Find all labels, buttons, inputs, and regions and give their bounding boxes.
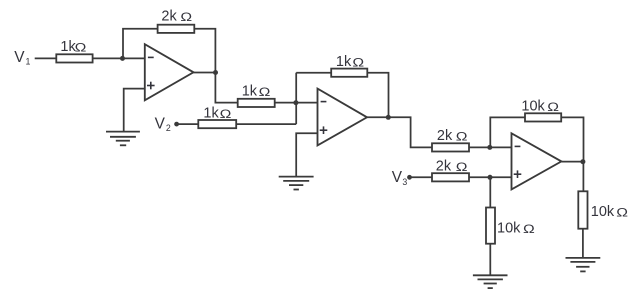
svg-text:Ω: Ω <box>456 129 468 143</box>
svg-text:2: 2 <box>166 123 171 133</box>
wire riser to R5 <box>296 72 331 74</box>
wire node F to U3 <box>490 176 512 178</box>
wire R5 to U2 output node <box>367 73 388 118</box>
node D (U2 output) <box>386 115 391 120</box>
svg-text:Ω: Ω <box>616 205 628 219</box>
resistor R6 2kΩ <box>432 128 469 152</box>
ground (R10 bottom) <box>566 258 601 272</box>
wire R8 to U3 output node <box>561 117 583 161</box>
source V1 <box>14 49 30 67</box>
svg-text:Ω: Ω <box>259 85 271 99</box>
resistor R5 1kΩ (U2 feedback) <box>331 54 367 77</box>
resistor R10 10kΩ (output load to ground) <box>578 191 628 228</box>
op-amp U3 <box>512 133 562 189</box>
svg-text:2k: 2k <box>161 8 177 24</box>
svg-text:Ω: Ω <box>352 55 364 69</box>
node A (U1 inverting input junction) <box>120 56 125 61</box>
wire R10 to ground <box>582 229 584 258</box>
resistor R9 10kΩ (+ input to ground) <box>486 208 535 244</box>
wire U2 inverting input <box>296 102 318 104</box>
op-amp U1 <box>145 44 194 100</box>
wire U2 noninverting input to ground <box>296 133 317 176</box>
wire R9 to ground <box>489 244 491 276</box>
node V2 terminal <box>174 122 179 127</box>
wire R1 to node A <box>93 57 145 59</box>
wire V1 to R1 <box>35 57 57 59</box>
svg-text:V: V <box>14 49 25 66</box>
svg-text:V: V <box>392 169 403 186</box>
wire node F down to R9 <box>489 177 491 207</box>
wire R2 to U1 output node <box>194 29 215 73</box>
wire V2 to R4 <box>177 123 199 125</box>
wire R7 to node F <box>469 176 490 178</box>
svg-text:1: 1 <box>26 57 31 67</box>
node G (U3 output) <box>580 159 585 164</box>
wire U3 output <box>561 161 583 163</box>
svg-text:10k: 10k <box>591 204 615 220</box>
svg-text:Ω: Ω <box>220 107 232 121</box>
svg-text:1k: 1k <box>203 105 219 121</box>
node V3 terminal <box>407 175 412 180</box>
svg-text:10k: 10k <box>521 98 545 114</box>
ground (U2 + input) <box>279 177 314 190</box>
wire V3 to R7 <box>410 176 433 178</box>
wire node A up to R2 <box>123 29 158 59</box>
wire node E up to R8 <box>490 117 525 147</box>
svg-text:2k: 2k <box>437 128 453 144</box>
wire R6 to node E <box>469 146 490 148</box>
svg-text:V: V <box>155 115 166 132</box>
resistor R7 2kΩ <box>432 158 469 181</box>
svg-text:1k: 1k <box>242 84 258 100</box>
svg-text:3: 3 <box>402 177 407 187</box>
wire U1 output <box>194 72 216 74</box>
svg-text:1k: 1k <box>336 54 352 70</box>
source V3 <box>392 169 408 187</box>
svg-text:Ω: Ω <box>75 40 87 54</box>
node C (U2 inverting input junction) <box>293 100 298 105</box>
wire node B down to R3 <box>215 73 237 103</box>
resistor R1 1kΩ <box>56 39 92 62</box>
resistor R3 1kΩ <box>238 84 275 107</box>
op-amp U2 <box>318 89 368 146</box>
ground (R9 bottom) <box>473 275 508 288</box>
resistor R2 2kΩ <box>158 8 195 33</box>
svg-text:10k: 10k <box>497 221 521 237</box>
wire R4 to node C riser <box>236 123 296 125</box>
svg-text:Ω: Ω <box>547 100 559 114</box>
resistor R4 1kΩ <box>198 105 236 128</box>
node F (U3 noninverting input junction) <box>488 175 493 180</box>
node E (U3 inverting input junction) <box>487 145 492 150</box>
wire node D down to R6 <box>388 117 432 147</box>
resistor R8 10kΩ (U3 feedback) <box>521 98 561 121</box>
svg-text:Ω: Ω <box>523 222 535 236</box>
svg-text:Ω: Ω <box>180 10 192 24</box>
wire node E to U3 <box>490 146 512 148</box>
wire node G down to R10 <box>582 162 584 192</box>
node B (U1 output) <box>213 70 218 75</box>
wire node C riser (feedback top to V2 tap) <box>295 73 297 124</box>
wire U2 output <box>367 116 389 118</box>
source V2 <box>155 115 171 133</box>
svg-text:2k: 2k <box>436 158 452 174</box>
wire R3 to node C <box>275 102 297 104</box>
svg-text:Ω: Ω <box>456 160 468 174</box>
wire U1 noninverting input to ground <box>124 89 145 132</box>
ground (U1 + input) <box>106 132 140 146</box>
